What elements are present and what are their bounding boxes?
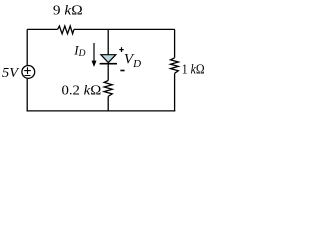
svg-text:5V: 5V bbox=[2, 66, 19, 81]
wire right branch upper bbox=[174, 29, 176, 57]
wire resistor to top-right bbox=[74, 28, 175, 30]
wire middle branch upper bbox=[107, 29, 109, 55]
current arrow ID bbox=[93, 43, 95, 62]
resistor 1k zigzag bbox=[171, 58, 179, 74]
svg-text:ID: ID bbox=[73, 42, 85, 59]
wire resistor to bottom bbox=[107, 96, 109, 111]
svg-text:0.2 kΩ: 0.2 kΩ bbox=[62, 84, 102, 99]
wire top-left to resistor bbox=[27, 28, 57, 30]
label minus of VD bbox=[120, 70, 124, 72]
diode D1 triangle bbox=[101, 55, 116, 63]
resistor 0.2k zigzag bbox=[104, 81, 112, 97]
wire diode to resistor bbox=[107, 63, 109, 81]
svg-text:VD: VD bbox=[124, 52, 141, 70]
wire right branch lower bbox=[174, 73, 176, 111]
svg-text:1 kΩ: 1 kΩ bbox=[182, 63, 205, 78]
diode D1 cathode bar bbox=[100, 63, 117, 65]
bottom wire bbox=[27, 110, 176, 112]
svg-text:9 kΩ: 9 kΩ bbox=[53, 4, 83, 19]
source V1 circle bbox=[22, 66, 35, 79]
label plus of VD bbox=[119, 47, 123, 52]
resistor 9k zigzag bbox=[58, 26, 74, 34]
wire left branch lower bbox=[26, 79, 28, 112]
source plus-minus symbol bbox=[24, 67, 31, 75]
wire left branch upper bbox=[26, 29, 28, 65]
